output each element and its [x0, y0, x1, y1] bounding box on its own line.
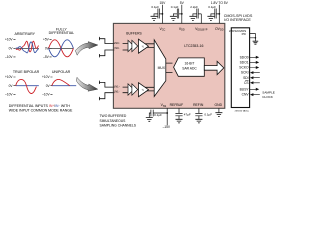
svg-text:MUX: MUX	[158, 66, 166, 70]
svg-text:–5V: –5V	[43, 55, 50, 59]
svg-text:½: ½	[142, 44, 144, 48]
svg-text:–15V: –15V	[163, 125, 171, 129]
svg-text:+10V: +10V	[42, 75, 50, 79]
svg-text:0.1µF: 0.1µF	[151, 5, 159, 9]
svg-text:SAMPLING CHANNELS: SAMPLING CHANNELS	[100, 124, 137, 128]
svg-text:IN1+: IN1+	[115, 85, 121, 89]
svg-text:0.1µF: 0.1µF	[204, 112, 212, 116]
svg-text:TRUE BIPOLAR: TRUE BIPOLAR	[13, 70, 40, 74]
svg-text:2.2µF: 2.2µF	[190, 5, 198, 9]
svg-text:CLOCK: CLOCK	[262, 95, 274, 99]
svg-text:½: ½	[142, 88, 144, 92]
svg-text:0.1µF: 0.1µF	[208, 5, 216, 9]
svg-text:VDDLBYP: VDDLBYP	[195, 27, 208, 32]
svg-text:VSS: VSS	[161, 103, 167, 108]
svg-text:BUFFERS: BUFFERS	[126, 31, 142, 35]
svg-text:I/O INTERFACE: I/O INTERFACE	[224, 18, 251, 22]
svg-text:DIFFERENTIAL INPUTS IN+/IN– WI: DIFFERENTIAL INPUTS IN+/IN– WITH	[9, 104, 71, 108]
svg-text:0.1µF: 0.1µF	[154, 113, 162, 117]
svg-text:47µF: 47µF	[184, 112, 191, 116]
svg-text:IN0–: IN0–	[115, 46, 121, 50]
svg-text:OVDD: OVDD	[215, 27, 224, 32]
svg-text:–10V: –10V	[5, 55, 13, 59]
svg-text:SDO0: SDO0	[240, 55, 249, 59]
svg-text:SAR ADC: SAR ADC	[182, 66, 197, 70]
svg-text:235316 TA01a: 235316 TA01a	[235, 109, 250, 112]
svg-text:UNIPOLAR: UNIPOLAR	[52, 70, 71, 74]
svg-text:SDO1: SDO1	[240, 61, 249, 65]
svg-text:CNV: CNV	[242, 93, 250, 97]
svg-text:+5V: +5V	[43, 38, 50, 42]
svg-text:–10V: –10V	[42, 92, 50, 96]
svg-text:WIDE INPUT COMMON MODE RANGE: WIDE INPUT COMMON MODE RANGE	[9, 109, 73, 113]
svg-text:REFBUF: REFBUF	[170, 103, 184, 107]
svg-text:SIMULTANEOUS: SIMULTANEOUS	[100, 119, 127, 123]
svg-text:CS: CS	[244, 81, 249, 85]
svg-text:LTC2353-16: LTC2353-16	[184, 44, 203, 48]
svg-text:IN1–: IN1–	[115, 90, 121, 94]
svg-text:BUSY: BUSY	[240, 87, 250, 91]
svg-text:SDI: SDI	[243, 76, 249, 80]
svg-text:15V: 15V	[159, 1, 166, 5]
svg-text:VCC: VCC	[159, 27, 165, 32]
svg-text:VDD: VDD	[179, 27, 185, 32]
svg-text:0.1µF: 0.1µF	[171, 5, 179, 9]
svg-text:SAMPLE: SAMPLE	[262, 91, 275, 95]
svg-text:+10V: +10V	[5, 38, 13, 42]
svg-text:–10V: –10V	[5, 92, 13, 96]
svg-text:GND: GND	[215, 103, 223, 107]
svg-text:REFIN: REFIN	[193, 103, 204, 107]
svg-text:+10V: +10V	[5, 75, 13, 79]
svg-text:SCKO: SCKO	[239, 66, 249, 70]
svg-text:IN0+: IN0+	[115, 41, 121, 45]
svg-text:ARBITRARY: ARBITRARY	[15, 32, 36, 36]
svg-text:TWO BUFFERED: TWO BUFFERED	[100, 114, 127, 118]
svg-text:SCKI: SCKI	[241, 71, 249, 75]
svg-text:DIFFERENTIAL: DIFFERENTIAL	[49, 31, 75, 35]
svg-text:16-BIT: 16-BIT	[185, 62, 195, 66]
